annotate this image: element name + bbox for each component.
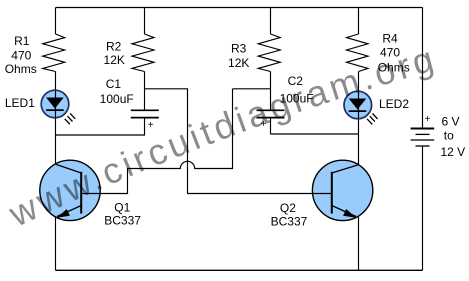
capacitor C1: [131, 110, 159, 117]
LED1: [41, 90, 75, 124]
wire C1 to LED1-Q1 node: [56, 134, 146, 136]
svg-text:C2: C2: [288, 74, 304, 88]
resistor R4: [347, 34, 369, 72]
LED2 rays: [367, 114, 378, 125]
svg-text:12K: 12K: [104, 53, 125, 67]
svg-text:Ohms: Ohms: [5, 62, 37, 76]
wire cross-coupling R3-C2 junction to Q1 base with hump: [81, 89, 232, 194]
wire Q2 emitter to bottom rail: [358, 217, 360, 271]
wire LED1 to Q1 collector: [55, 117, 57, 164]
wire LED2 to Q2 collector: [358, 118, 360, 165]
svg-text:C1: C1: [106, 77, 122, 91]
wire R1 to LED1: [55, 72, 57, 92]
wire battery bottom lead: [422, 146, 424, 270]
wire bottom rail: [56, 269, 423, 271]
wire R2 top lead: [144, 8, 146, 35]
svg-text:LED2: LED2: [379, 97, 409, 111]
svg-text:R1: R1: [14, 34, 30, 48]
wire Q1 emitter to bottom rail: [55, 217, 57, 271]
wire battery top lead: [422, 8, 424, 129]
wire C2 to LED2-Q2 node: [271, 133, 359, 135]
svg-text:to: to: [444, 129, 454, 143]
wire R4 to LED2: [358, 72, 360, 93]
svg-text:Q2: Q2: [280, 201, 296, 215]
wire top rail: [56, 7, 423, 9]
resistor R1: [43, 34, 65, 72]
svg-text:+: +: [425, 114, 431, 125]
svg-text:470: 470: [380, 46, 400, 60]
svg-text:100uF: 100uF: [100, 92, 134, 106]
svg-text:100uF: 100uF: [280, 92, 314, 106]
transistor Q2: [312, 160, 372, 220]
svg-text:R4: R4: [382, 31, 398, 45]
LED2: [344, 91, 378, 124]
svg-text:Ohms: Ohms: [378, 61, 410, 75]
battery B1: [411, 129, 435, 147]
svg-text:6 V: 6 V: [441, 115, 459, 129]
svg-text:Q1: Q1: [114, 200, 130, 214]
svg-text:LED1: LED1: [5, 96, 35, 110]
wire R3-C2 junction branch left: [233, 88, 271, 90]
wire R2-C1 junction to Q2 base: [145, 89, 313, 194]
svg-text:470: 470: [11, 49, 31, 63]
capacitor C2: [257, 110, 285, 117]
svg-text:12 V: 12 V: [440, 145, 465, 159]
wire C2 bottom lead: [270, 118, 272, 134]
svg-text:R3: R3: [231, 41, 247, 55]
wire R2 to C1: [144, 72, 146, 111]
wire C1 bottom to corner: [144, 118, 146, 136]
svg-text:BC337: BC337: [271, 215, 308, 229]
transistor Q1: [40, 160, 100, 220]
wire R3 to C2: [270, 72, 272, 111]
resistor R2: [132, 34, 154, 72]
resistor R3: [258, 34, 280, 72]
wire R3 top lead: [270, 8, 272, 35]
svg-text:+: +: [261, 119, 267, 130]
svg-text:BC337: BC337: [104, 214, 141, 228]
svg-text:R2: R2: [106, 40, 122, 54]
wire R1 top lead: [55, 8, 57, 35]
LED1 rays: [65, 113, 76, 124]
svg-text:12K: 12K: [228, 56, 249, 70]
wire R4 top lead: [358, 8, 360, 35]
svg-text:+: +: [148, 120, 154, 131]
